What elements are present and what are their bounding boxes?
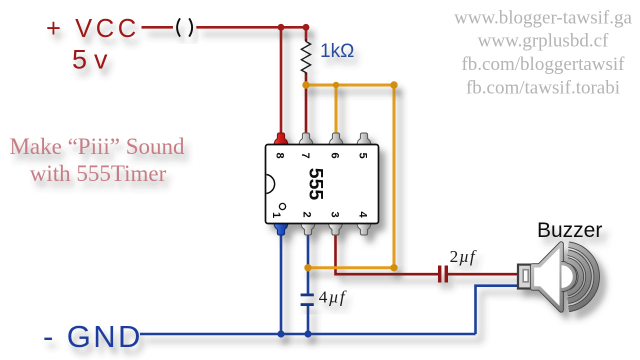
pin 1 — [274, 223, 289, 236]
wire orange right rail down — [393, 84, 396, 268]
junction VCC/pin8 — [278, 24, 285, 31]
capacitor C1 2µf plates — [438, 266, 441, 283]
op IC U1 555 body — [266, 145, 379, 224]
buzzer BZ1 dome — [562, 264, 575, 290]
svg-text:Buzzer: Buzzer — [537, 219, 602, 242]
IC notch — [266, 175, 274, 194]
wire VCC rail corner down to resistor R1 — [305, 26, 308, 41]
capacitor C2 4µf plates — [301, 293, 314, 296]
wire capacitor C1 to buzzer plus — [448, 273, 519, 276]
junction VCC/R1 corner — [303, 24, 310, 31]
svg-text:fb.com/tawsif.torabi: fb.com/tawsif.torabi — [466, 78, 620, 99]
resistor R1 — [301, 39, 310, 75]
svg-text:3: 3 — [329, 211, 341, 217]
buzzer BZ1 speaker cone — [533, 244, 562, 310]
svg-text:555: 555 — [305, 168, 327, 201]
wire VCC from label to connector — [142, 26, 174, 29]
wire capacitor C2 to GND bus — [307, 306, 310, 334]
svg-text:with 555Timer: with 555Timer — [30, 161, 167, 186]
svg-text:www.grplusbd.cf: www.grplusbd.cf — [478, 31, 609, 52]
wire orange pin6 drop — [335, 85, 338, 135]
wire pin2 down to capacitor C2 — [307, 234, 310, 294]
junction R1 bottom orange — [302, 81, 309, 88]
buzzer sound wave arc 1 — [567, 261, 580, 294]
caption title — [9, 134, 185, 186]
wire VCC connector to resistor top corner — [196, 26, 306, 29]
wire GND bus — [140, 333, 476, 336]
svg-text:6: 6 — [329, 152, 341, 158]
svg-text:- GND: - GND — [43, 319, 143, 354]
junction GND/pin1 — [277, 330, 284, 337]
connector ( ) in VCC lead — [177, 18, 180, 36]
wire pin1 to GND bus — [280, 234, 283, 334]
pin 6 — [329, 133, 344, 146]
svg-text:2: 2 — [301, 211, 313, 217]
wire GND riser to buzzer minus — [476, 286, 520, 334]
wire pin8 to VCC rail — [280, 27, 283, 135]
buzzer BZ1 terminal box — [518, 265, 533, 289]
junction orange bottom right corner — [390, 264, 397, 271]
pin 3 — [328, 223, 343, 236]
junction GND/C2 — [304, 330, 311, 337]
pin 4 — [357, 223, 372, 236]
pin 8 — [274, 133, 289, 146]
wire orange net: R1 bottom across pins 7-6 to right rail — [306, 84, 394, 87]
junction orange pin6 — [333, 82, 339, 88]
pin 2 — [301, 223, 316, 236]
svg-text:Make “Piii” Sound: Make “Piii” Sound — [9, 134, 185, 159]
pin 7 — [299, 133, 314, 146]
buzzer sound wave arc 3 — [569, 245, 597, 309]
junction orange/pin2 node — [304, 264, 311, 271]
svg-text:fb.com/bloggertawsif: fb.com/bloggertawsif — [461, 54, 625, 75]
junction orange top right corner — [390, 81, 397, 88]
svg-text:8: 8 — [274, 152, 286, 158]
svg-text:2µf: 2µf — [450, 247, 477, 266]
svg-text:7: 7 — [299, 152, 311, 158]
svg-text:1kΩ: 1kΩ — [320, 41, 354, 62]
IC pin1 indicator dot — [279, 203, 285, 209]
watermark links — [454, 8, 632, 99]
svg-text:www.blogger-tawsif.ga: www.blogger-tawsif.ga — [454, 8, 632, 29]
wire orange bottom run to pin2 node — [308, 266, 394, 269]
svg-text:4µf: 4µf — [319, 288, 347, 307]
svg-text:5v: 5v — [72, 45, 115, 75]
wire resistor bottom to pin 7 — [305, 73, 308, 136]
svg-text:1: 1 — [270, 212, 282, 218]
wire pin3 down and right to capacitor C1 — [336, 234, 439, 274]
pin 5 — [357, 133, 372, 146]
svg-text:5: 5 — [357, 152, 369, 158]
buzzer sound wave arc 2 — [568, 253, 589, 301]
svg-text:4: 4 — [357, 211, 369, 218]
svg-text:+ VCC: + VCC — [46, 15, 140, 43]
